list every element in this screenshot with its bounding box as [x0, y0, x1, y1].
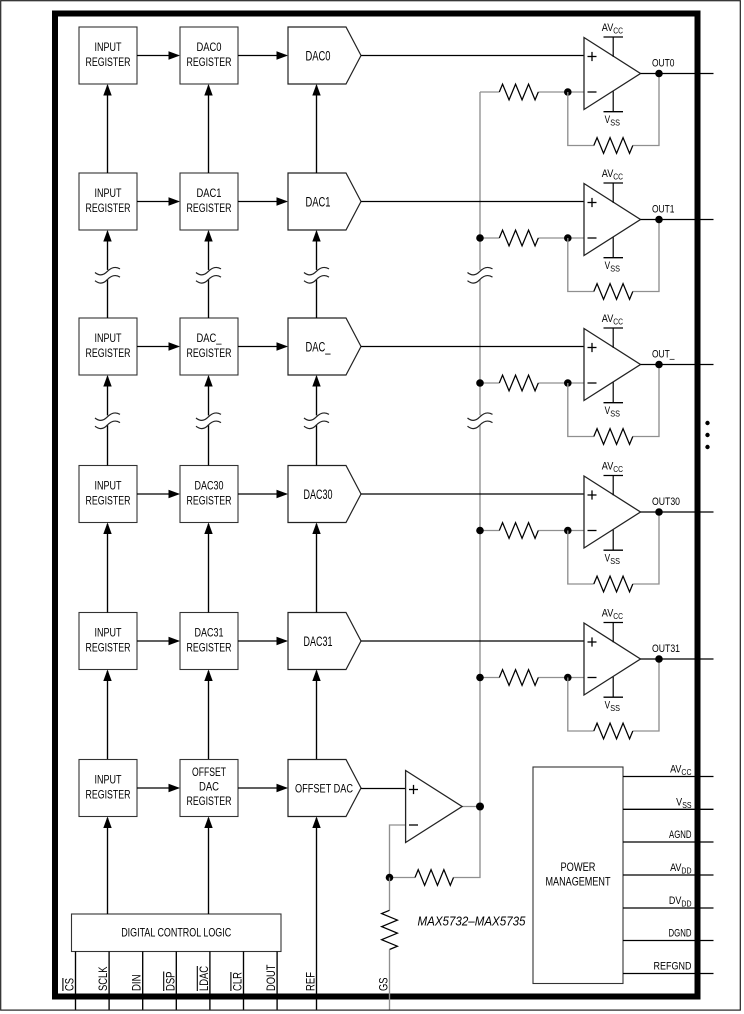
break mark upper	[105, 270, 109, 279]
svg-text:REF: REF	[306, 972, 318, 991]
svg-text:DAC0: DAC0	[197, 40, 222, 54]
svg-text:AV: AV	[602, 313, 614, 325]
wire feedback loop row 1 (gray)	[568, 238, 594, 292]
junction reference output to bus	[476, 803, 484, 811]
wire pin DVDD	[623, 907, 714, 909]
wire column x208 row4 to row3	[208, 524, 210, 613]
wire pin SCLK	[108, 952, 110, 1010]
wire pin CS	[75, 952, 77, 1010]
break mark lower	[206, 415, 210, 424]
wire input resistor feed row 31 (gray)	[480, 677, 499, 679]
wire column x107 row4 to row3	[107, 524, 109, 613]
resistor feedback R row 30	[594, 576, 633, 592]
svg-text:AGND: AGND	[669, 829, 692, 841]
svg-text:DAC30: DAC30	[195, 479, 224, 493]
op-amp A1	[584, 184, 641, 256]
junction output OUT_	[655, 361, 663, 369]
wire feedback loop row 0 (gray)	[568, 92, 594, 146]
wire DAC1 REGISTER to DAC1	[238, 201, 287, 203]
resistor feedback R row 31	[594, 723, 633, 739]
wire pin LDAC	[209, 952, 211, 1010]
wire pin DGND	[623, 940, 714, 942]
block DIGITAL CONTROL LOGIC	[72, 914, 282, 952]
svg-text:DGND: DGND	[669, 928, 692, 940]
svg-text:OUT_: OUT_	[652, 349, 675, 361]
svg-text:SS: SS	[610, 556, 620, 566]
junction output OUT0	[655, 70, 663, 78]
wire pin VSS	[623, 808, 714, 810]
input register row 0	[79, 27, 137, 84]
input register row 30	[79, 466, 137, 523]
junction bus row 1	[476, 234, 484, 242]
break mark lower	[478, 415, 482, 424]
svg-text:REFGND: REFGND	[654, 961, 692, 973]
wire output OUT0	[641, 73, 714, 75]
power AVCC row 0	[604, 36, 624, 38]
svg-text:REGISTER: REGISTER	[187, 794, 232, 808]
svg-text:CS: CS	[65, 978, 77, 991]
svg-text:DV: DV	[669, 895, 682, 907]
svg-text:GS: GS	[378, 977, 390, 991]
input register row _	[79, 318, 137, 375]
junction output OUT31	[655, 655, 663, 663]
wire pin REF	[316, 818, 318, 1010]
register OFFSET DAC REGISTER	[180, 760, 238, 817]
power VSS row 0	[604, 111, 624, 113]
wire GS upper (gray)	[389, 878, 391, 911]
node GS	[378, 977, 390, 991]
input register row 1	[79, 173, 137, 230]
wire column x316 row5 to row4	[316, 671, 318, 760]
node CLR	[231, 972, 245, 991]
wire output OUT31	[641, 658, 714, 660]
wire input resistor feed row 30 (gray)	[480, 530, 499, 532]
wire pin DSP	[175, 952, 177, 1010]
svg-text:AV: AV	[602, 22, 614, 34]
wire column x208 row1 to row0	[208, 86, 210, 174]
resistor GS R	[382, 910, 398, 949]
svg-text:DAC_: DAC_	[197, 331, 222, 345]
wire OFFSET DAC to reference op-amp +	[361, 788, 406, 790]
svg-text:AV: AV	[602, 168, 614, 180]
op-amp A_	[584, 329, 641, 401]
svg-text:OFFSET: OFFSET	[192, 765, 226, 779]
svg-text:DAC1: DAC1	[306, 195, 331, 210]
break mark upper	[206, 270, 210, 279]
power AVCC row _	[604, 327, 624, 329]
op-amp A31	[584, 623, 641, 695]
wire reference feedback rail (gray)	[390, 877, 416, 879]
svg-text:SS: SS	[610, 703, 620, 713]
svg-text:MANAGEMENT: MANAGEMENT	[546, 875, 611, 889]
svg-text:AV: AV	[602, 608, 614, 620]
svg-text:CC: CC	[613, 316, 623, 326]
svg-text:DAC: DAC	[199, 780, 219, 794]
resistor input R row 0	[499, 84, 538, 100]
node REF	[306, 972, 318, 991]
svg-text:SS: SS	[610, 263, 620, 273]
wire output OUT30	[641, 511, 714, 513]
svg-text:LDAC: LDAC	[199, 966, 211, 991]
svg-text:DIN: DIN	[132, 975, 144, 992]
svg-text:OUT30: OUT30	[652, 496, 680, 508]
wire column x208 row5 to row4	[208, 671, 210, 760]
svg-text:REGISTER: REGISTER	[86, 201, 131, 215]
wire DAC_ REGISTER to DAC_	[238, 346, 287, 348]
wire pin DIN	[142, 952, 144, 1010]
svg-text:DIGITAL CONTROL LOGIC: DIGITAL CONTROL LOGIC	[121, 926, 231, 940]
svg-text:AV: AV	[670, 764, 682, 776]
input register row 31	[79, 613, 137, 670]
svg-text:CLR: CLR	[233, 972, 245, 991]
wire reference op-amp output (gray)	[462, 806, 480, 808]
svg-text:REGISTER: REGISTER	[86, 641, 131, 655]
wire DAC_ to op-amp + input	[361, 346, 584, 348]
svg-text:DD: DD	[681, 866, 691, 876]
wire GS lower (gray)	[389, 950, 391, 1010]
svg-text:INPUT: INPUT	[95, 331, 123, 345]
junction inverting input row _	[564, 379, 572, 387]
resistor feedback R row 1	[594, 284, 633, 300]
svg-text:DAC31: DAC31	[195, 626, 224, 640]
svg-text:CC: CC	[613, 171, 623, 181]
svg-text:DAC1: DAC1	[197, 186, 222, 200]
wire pin AGND	[623, 841, 714, 843]
wire input resistor feed row 0 (gray)	[480, 91, 499, 93]
node continuation dots	[705, 421, 709, 425]
svg-text:AV: AV	[602, 461, 614, 473]
junction bus row 30	[476, 527, 484, 535]
svg-text:INPUT: INPUT	[95, 186, 123, 200]
node DSP	[164, 971, 178, 991]
junction inverting input row 1	[564, 234, 572, 242]
block POWER MANAGEMENT	[533, 767, 623, 984]
node DOUT	[266, 965, 278, 992]
DAC block DAC31	[288, 613, 361, 670]
wire DAC0 to op-amp + input	[361, 55, 584, 57]
svg-text:DAC0: DAC0	[306, 49, 331, 64]
resistor input R row 31	[499, 670, 538, 686]
svg-text:REGISTER: REGISTER	[187, 641, 232, 655]
register DAC1 REGISTER	[180, 173, 238, 230]
svg-text:DAC31: DAC31	[304, 634, 333, 649]
wire DAC31 to op-amp + input	[361, 640, 584, 642]
svg-text:CC: CC	[613, 25, 623, 35]
svg-text:AV: AV	[670, 862, 682, 874]
wire DCL to OFFSET DAC REGISTER	[208, 818, 210, 914]
wire column x107 row2 to row1	[107, 232, 109, 319]
op-amp A30	[584, 476, 641, 548]
DAC block DAC_	[288, 318, 361, 375]
break mark lower	[314, 415, 318, 424]
op-amp A0	[584, 38, 641, 110]
wire DCL to INPUT REGISTER	[107, 818, 109, 914]
break mark upper	[478, 270, 482, 279]
svg-text:MAX5732–MAX5735: MAX5732–MAX5735	[418, 914, 527, 929]
svg-text:INPUT: INPUT	[95, 626, 123, 640]
power AVCC row 31	[604, 622, 624, 624]
wire column x208 row2 to row1	[208, 232, 210, 319]
svg-text:CC: CC	[613, 611, 623, 621]
power AVCC row 1	[604, 182, 624, 184]
junction bus row _	[476, 379, 484, 387]
svg-text:SCLK: SCLK	[98, 966, 110, 991]
node SCLK	[98, 966, 110, 991]
wire reference op-amp inverting (gray)	[390, 825, 406, 878]
svg-text:SS: SS	[610, 408, 620, 418]
DAC block OFFSET DAC	[288, 760, 361, 817]
junction reference inverting node	[386, 874, 394, 882]
wire pin CLR	[243, 952, 245, 1010]
resistor feedback R row _	[594, 429, 633, 445]
junction inverting input row 0	[564, 88, 572, 96]
junction bus row 31	[476, 674, 484, 682]
svg-text:DOUT: DOUT	[266, 965, 278, 992]
wire column x107 row3 to row2	[107, 377, 109, 466]
wire feedback loop row 31 (gray)	[568, 678, 594, 732]
input register row offset	[79, 760, 137, 817]
break mark lower	[105, 415, 109, 424]
wire DAC1 to op-amp + input	[361, 201, 584, 203]
wire input resistor feed row 1 (gray)	[480, 237, 499, 239]
wire feedback bus (vertical gray bus)	[479, 92, 481, 807]
junction inverting input row 31	[564, 674, 572, 682]
junction output OUT1	[655, 216, 663, 224]
svg-text:DAC30: DAC30	[304, 487, 333, 502]
wire input resistor feed row _ (gray)	[480, 382, 499, 384]
wire INPUT REGISTER to DAC1 REGISTER	[137, 201, 179, 203]
wire column x107 row1 to row0	[107, 86, 109, 174]
svg-text:INPUT: INPUT	[95, 479, 123, 493]
node LDAC	[197, 966, 211, 991]
resistor input R row 30	[499, 523, 538, 539]
wire column x208 row3 to row2	[208, 377, 210, 466]
svg-text:REGISTER: REGISTER	[187, 346, 232, 360]
op-amp reference buffer	[406, 771, 463, 843]
wire DAC30 REGISTER to DAC30	[238, 493, 287, 495]
node DIN	[132, 975, 144, 992]
svg-text:REGISTER: REGISTER	[86, 55, 131, 69]
power AVCC row 30	[604, 475, 624, 477]
wire column x316 row4 to row3	[316, 524, 318, 613]
svg-text:REGISTER: REGISTER	[86, 494, 131, 508]
wire pin REFGND	[623, 973, 714, 975]
svg-text:SS: SS	[610, 117, 620, 127]
DAC block DAC1	[288, 173, 361, 230]
wire column x107 row5 to row4	[107, 671, 109, 760]
wire INPUT REGISTER to DAC_ REGISTER	[137, 346, 179, 348]
svg-text:INPUT: INPUT	[95, 40, 123, 54]
resistor reference feedback R	[415, 870, 454, 886]
wire feedback loop row _ (gray)	[568, 383, 594, 437]
svg-text:DSP: DSP	[165, 971, 177, 991]
svg-text:REGISTER: REGISTER	[187, 201, 232, 215]
wire pin AVDD	[623, 874, 714, 876]
wire pin DOUT	[276, 952, 278, 1010]
wire output OUT_	[641, 364, 714, 366]
register DAC0 REGISTER	[180, 27, 238, 84]
wire column x316 row1 to row0	[316, 86, 318, 174]
svg-text:REGISTER: REGISTER	[187, 55, 232, 69]
svg-text:OFFSET DAC: OFFSET DAC	[295, 782, 353, 796]
svg-text:REGISTER: REGISTER	[86, 346, 131, 360]
svg-text:POWER: POWER	[561, 860, 596, 874]
resistor feedback R row 0	[594, 138, 633, 154]
resistor input R row 1	[499, 230, 538, 246]
wire INPUT REGISTER to DAC31 REGISTER	[137, 640, 179, 642]
svg-text:SS: SS	[682, 800, 692, 810]
wire DAC31 REGISTER to DAC31	[238, 640, 287, 642]
wire DAC30 to op-amp + input	[361, 493, 584, 495]
power VSS row 31	[604, 696, 624, 698]
svg-text:CC: CC	[613, 464, 623, 474]
svg-text:CC: CC	[681, 767, 691, 777]
svg-text:INPUT: INPUT	[95, 773, 123, 787]
power VSS row 30	[604, 549, 624, 551]
register DAC31 REGISTER	[180, 613, 238, 670]
svg-text:REGISTER: REGISTER	[187, 494, 232, 508]
wire OFFSET DAC REGISTER to OFFSET DAC	[238, 787, 287, 789]
wire INPUT REGISTER to DAC0 REGISTER	[137, 55, 179, 57]
wire INPUT REGISTER to DAC30 REGISTER	[137, 493, 179, 495]
wire column x316 row3 to row2	[316, 377, 318, 466]
junction inverting input row 30	[564, 527, 572, 535]
DAC block DAC30	[288, 466, 361, 523]
wire INPUT REGISTER to OFFSET DAC REGISTER	[137, 787, 179, 789]
register DAC30 REGISTER	[180, 466, 238, 523]
node CS	[63, 978, 77, 991]
resistor input R row _	[499, 375, 538, 391]
wire pin AVCC	[623, 776, 714, 778]
svg-text:DD: DD	[681, 899, 691, 909]
power VSS row _	[604, 402, 624, 404]
wire DAC0 REGISTER to DAC0	[238, 55, 287, 57]
register DAC_ REGISTER	[180, 318, 238, 375]
svg-text:OUT1: OUT1	[652, 204, 675, 216]
break mark upper	[314, 270, 318, 279]
svg-text:OUT0: OUT0	[652, 58, 675, 70]
wire feedback loop row 30 (gray)	[568, 531, 594, 585]
svg-text:OUT31: OUT31	[652, 643, 680, 655]
svg-text:REGISTER: REGISTER	[86, 788, 131, 802]
DAC block DAC0	[288, 27, 361, 84]
junction output OUT30	[655, 508, 663, 516]
svg-text:DAC_: DAC_	[306, 340, 331, 355]
wire output OUT1	[641, 219, 714, 221]
wire column x316 row2 to row1	[316, 232, 318, 319]
power VSS row 1	[604, 257, 624, 259]
